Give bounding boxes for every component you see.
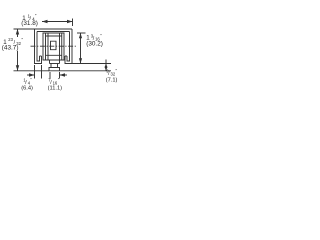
svg-text:″: ″ xyxy=(35,13,37,18)
svg-text:(11.1): (11.1) xyxy=(48,86,63,92)
svg-text:(31.8): (31.8) xyxy=(21,20,38,27)
svg-text:(6.4): (6.4) xyxy=(21,86,33,92)
svg-text:(7.1): (7.1) xyxy=(106,78,118,84)
svg-text:″: ″ xyxy=(116,68,118,73)
svg-text:(30.2): (30.2) xyxy=(86,40,103,47)
svg-text:(43.7): (43.7) xyxy=(2,45,19,52)
svg-text:″: ″ xyxy=(22,37,24,42)
svg-text:″: ″ xyxy=(100,33,102,38)
svg-text:″: ″ xyxy=(30,77,32,82)
